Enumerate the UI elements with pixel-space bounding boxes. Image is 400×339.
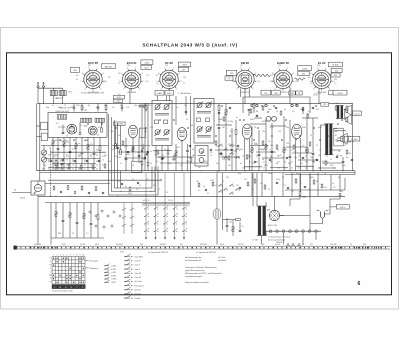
svg-text:47: 47 [158, 189, 160, 191]
wire jog 22 [302, 117, 318, 119]
svg-text:203 1: 203 1 [117, 97, 122, 99]
wire R102d [69, 217, 71, 238]
svg-text:30 49: 30 49 [220, 244, 224, 246]
svg-text:100: 100 [270, 145, 273, 147]
capacitor C52 [271, 151, 274, 152]
tube V2 ECH 81 socket symbol [119, 61, 144, 94]
wire C105u [90, 203, 92, 223]
svg-text:50: 50 [276, 111, 278, 113]
svg-text:10: 10 [319, 150, 321, 152]
wire jog 20 [250, 123, 266, 125]
wire c92 drop [302, 109, 304, 114]
wire ech drop5 [138, 138, 140, 171]
svg-text:7: 7 [73, 255, 74, 257]
capacitor C17 [61, 163, 64, 164]
svg-text:0,5: 0,5 [44, 165, 46, 167]
svg-text:10: 10 [166, 192, 168, 194]
wire left rail stub1 [37, 125, 41, 127]
svg-text:50: 50 [324, 173, 326, 175]
svg-text:302: 302 [60, 160, 63, 162]
svg-text:47: 47 [319, 167, 321, 169]
dial lamp La3 [282, 230, 285, 233]
FM tuner unit box 3043 [48, 113, 107, 138]
svg-text:1,2: 1,2 [258, 81, 260, 83]
wire c61 dn [289, 158, 291, 170]
wire R37d [155, 155, 157, 171]
wire fb drop4 [339, 175, 341, 193]
resistor Rx7 [173, 156, 175, 160]
shield box around EM80 wiring [243, 97, 310, 113]
svg-text:1200: 1200 [302, 197, 306, 199]
svg-text:5k: 5k [254, 127, 256, 129]
svg-text:10n: 10n [240, 149, 243, 151]
svg-text:25: 25 [282, 177, 284, 179]
wire r41 dn [218, 110, 220, 126]
svg-text:100: 100 [262, 131, 265, 133]
wire agc line [117, 123, 119, 188]
svg-text:F:AM: F:AM [157, 92, 162, 95]
svg-text:22k: 22k [66, 142, 69, 144]
coil FM coil L4 [81, 118, 92, 122]
svg-text:6: 6 [123, 88, 124, 90]
wire r72 up [232, 220, 234, 227]
pin voltage annotations around tubes [76, 65, 337, 85]
svg-text:2,2: 2,2 [104, 81, 106, 83]
svg-text:2k: 2k [312, 167, 314, 169]
wire right rail [352, 103, 354, 170]
label box below V6 [329, 91, 340, 95]
svg-text:40: 40 [97, 135, 99, 137]
svg-text:43: 43 [302, 244, 304, 246]
svg-text:220: 220 [108, 161, 111, 163]
choke transformer Tr3 winding bars [336, 106, 344, 119]
resistor R42 [225, 110, 227, 115]
svg-text:4911: 4911 [62, 244, 66, 246]
svg-text:DL 21: DL 21 [355, 113, 360, 115]
resistor R36 [147, 162, 149, 166]
svg-text:215: 215 [240, 65, 243, 67]
capacitor Cx6 [162, 157, 164, 158]
resistor R21 [56, 164, 58, 168]
svg-text:12 14: 12 14 [168, 200, 173, 202]
svg-text:Teilbereich: Teilbereich [89, 267, 98, 270]
svg-text:240: 240 [232, 81, 235, 83]
svg-text:0,05: 0,05 [216, 171, 219, 173]
capacitor Cx35 [275, 107, 277, 108]
IF transformer can Fi2 [194, 99, 214, 144]
oscillator coil box below [132, 161, 142, 172]
tube V6 EL 84 socket symbol [309, 61, 334, 94]
wiring terminal circles cluster [89, 210, 121, 228]
svg-text:205: 205 [165, 65, 168, 67]
resistor R25 [80, 165, 82, 169]
svg-text:T: T [50, 271, 51, 273]
wire R12 up [63, 138, 65, 142]
wire C15 dn [81, 154, 83, 170]
svg-text:0,1: 0,1 [125, 186, 127, 188]
wire V2 drop to bus [129, 88, 131, 103]
junction dots on chassis bus [60, 170, 344, 171]
wire tr2 sec1 [332, 149, 340, 151]
svg-text:300: 300 [168, 163, 171, 165]
capacitor C39 [185, 111, 187, 112]
svg-text:0,1: 0,1 [207, 193, 209, 195]
wire gang link [43, 155, 45, 157]
capacitor Cx12 [220, 153, 222, 154]
svg-text:204: 204 [116, 100, 119, 102]
svg-text:220: 220 [312, 162, 315, 164]
svg-text:491: 491 [310, 244, 313, 246]
svg-text:L: L [50, 268, 51, 270]
svg-text:SCHALTPLAN 2043 W/3 D (Ausf. I: SCHALTPLAN 2043 W/3 D (Ausf. IV) [142, 43, 237, 48]
lower vertical drops right section [252, 173, 318, 197]
wire r61 dn [283, 152, 285, 170]
capacitor C13 [69, 151, 72, 152]
resistor Rx3 [142, 145, 144, 149]
svg-text:Meßwerte gelten mit 220 V~ und: Meßwerte gelten mit 220 V~ und Röhrenvol… [185, 272, 223, 275]
callout label Taste gedrueckt [85, 260, 99, 263]
wire c71 dn [226, 227, 228, 232]
svg-text:9: 9 [278, 67, 279, 69]
svg-text:3021: 3021 [330, 165, 334, 167]
wire V4 drop to bus [244, 88, 246, 103]
svg-text:b 4912: b 4912 [111, 269, 116, 271]
svg-text:4013: 4013 [167, 93, 171, 95]
resistor Rx11 [215, 141, 217, 145]
svg-text:5k: 5k [234, 145, 236, 147]
svg-text:im Betrieb: im Betrieb [218, 259, 226, 262]
wire R16 up [87, 138, 89, 145]
svg-text:UKW-Teil 3043: UKW-Teil 3043 [56, 111, 70, 113]
svg-text:47: 47 [66, 155, 68, 157]
svg-text:8µ: 8µ [352, 141, 354, 143]
capacitor C92 [302, 107, 304, 108]
label box right top [333, 90, 347, 95]
capacitor C35 [88, 192, 90, 193]
wire ech drop4 [132, 138, 134, 171]
wire R12 dn [63, 146, 65, 170]
wire R10 up [52, 138, 54, 141]
resistor R21 [115, 144, 117, 149]
svg-text:500k: 500k [250, 119, 254, 121]
svg-text:2k: 2k [102, 160, 104, 162]
wire r62 up [306, 113, 308, 148]
svg-text:0,1: 0,1 [292, 191, 294, 193]
svg-text:25: 25 [310, 135, 312, 137]
svg-text:Taste gedr.: Taste gedr. [89, 260, 99, 263]
svg-text:47: 47 [72, 233, 74, 235]
capacitor C63 [342, 161, 345, 162]
svg-text:0,9: 0,9 [118, 83, 120, 85]
label box below V5 (a) [289, 91, 295, 95]
capacitor Cx22 [302, 157, 304, 158]
wire bus y196 [38, 195, 345, 197]
pushbutton switch matrix table [52, 257, 85, 285]
capacitor Cx37 [302, 109, 304, 110]
resistor R23 [68, 165, 70, 169]
wire dipole feeder [12, 192, 31, 194]
wire eabc drop2 [249, 139, 251, 171]
svg-text:0,1: 0,1 [333, 167, 335, 169]
svg-text:alle Spannungen bei: alle Spannungen bei [185, 257, 202, 259]
svg-text:10n: 10n [84, 140, 87, 142]
callout label Teilbereich [85, 267, 98, 270]
label box left of V4 (a) [226, 70, 237, 75]
antenna terminal A1 [37, 82, 39, 103]
resistor R57 [247, 182, 249, 186]
svg-text:304: 304 [55, 140, 58, 142]
capacitor C11 in FM box [62, 132, 65, 133]
svg-text:300: 300 [62, 127, 65, 129]
svg-text:0,1: 0,1 [326, 162, 328, 164]
wire c62 dn [312, 155, 314, 170]
wire R14 dn [75, 148, 77, 170]
label box F:AM left [155, 91, 164, 96]
svg-text:1: 1 [325, 67, 326, 69]
svg-text:8µ: 8µ [346, 157, 348, 159]
wire C13 up [69, 138, 71, 151]
svg-text:4 6 8 10: 4 6 8 10 [143, 200, 150, 202]
capacitor C24 [74, 160, 76, 161]
wire R100d [55, 216, 57, 238]
svg-text:282: 282 [84, 110, 87, 112]
dial lamp La4 [289, 230, 292, 233]
capacitor Cx8 [189, 145, 191, 146]
svg-text:100: 100 [340, 191, 343, 193]
wire r31 down [175, 155, 177, 170]
svg-text:4: 4 [329, 88, 330, 90]
wire fb corner up [344, 178, 346, 190]
wire mains wiring2 [325, 207, 337, 214]
svg-text:4912: 4912 [120, 251, 124, 253]
wire r41 up [218, 103, 220, 105]
svg-text:9: 9 [80, 255, 81, 257]
wire c41 dn [218, 129, 220, 170]
capacitor C22 [62, 159, 64, 160]
svg-text:470: 470 [254, 143, 257, 145]
resistor R16 [87, 145, 89, 150]
output transformer Tr2 winding bars [324, 124, 333, 155]
wire r81 dn [299, 196, 301, 199]
svg-text:10: 10 [291, 167, 293, 169]
resistor R23 [132, 147, 134, 152]
svg-text:1: 1 [135, 67, 136, 69]
svg-text:0,1: 0,1 [80, 125, 82, 127]
resistor Rx30 [223, 117, 225, 121]
label box above Tr3 [321, 103, 329, 107]
svg-text:2,2: 2,2 [198, 190, 200, 192]
capacitor Cx31 [229, 107, 231, 108]
tube V3 EF 89 socket symbol [156, 61, 181, 94]
svg-text:8: 8 [158, 73, 159, 75]
wire jog 9 [160, 162, 208, 164]
svg-text:282 283,4: 282 283,4 [126, 91, 137, 94]
capacitor Cx29 [218, 112, 220, 113]
wire r61 up [283, 116, 285, 148]
svg-text:313: 313 [323, 104, 326, 106]
svg-text:25: 25 [64, 105, 66, 107]
wire speaker lead2 [344, 118, 346, 120]
svg-text:220: 220 [224, 115, 227, 117]
svg-text:4916: 4916 [276, 179, 280, 181]
dial lamp La1 [269, 230, 272, 233]
wire el84 drop2 [300, 138, 302, 171]
wire lamp stub b [302, 233, 304, 245]
wire R37u [155, 146, 157, 152]
svg-text:2: 2 [142, 73, 143, 75]
svg-text:220: 220 [137, 152, 140, 154]
resistor R62 [306, 148, 308, 153]
wire r52 dn [265, 149, 267, 170]
svg-text:5: 5 [66, 255, 67, 257]
label box right of V3 (a) [178, 62, 191, 67]
svg-text:30p: 30p [114, 156, 117, 158]
wire jog 10 [215, 149, 232, 151]
resistor R41 [218, 106, 220, 111]
svg-text:gegen Masse gemessen: gegen Masse gemessen [185, 270, 205, 272]
resistor R59 [321, 184, 323, 188]
capacitor C91 [248, 109, 251, 110]
svg-text:30p: 30p [238, 173, 241, 175]
svg-text:220: 220 [298, 156, 301, 158]
svg-text:B 302: B 302 [338, 93, 343, 95]
svg-text:6: 6 [237, 88, 238, 90]
svg-text:0,1: 0,1 [308, 111, 310, 113]
svg-text:5k: 5k [262, 159, 264, 161]
svg-text:5k: 5k [160, 179, 162, 181]
svg-text:4 4 44: 4 4 44 [275, 244, 280, 246]
IF transformer can Fi1 [152, 96, 172, 146]
tube V5a EABC80 envelope [242, 124, 252, 140]
FM dipole input box [31, 181, 45, 195]
svg-text:1: 1 [287, 67, 288, 69]
wire R102u [69, 203, 71, 213]
svg-text:0,1: 0,1 [305, 167, 307, 169]
svg-text:6: 6 [161, 88, 162, 90]
svg-text:30: 30 [268, 189, 270, 191]
capacitor C54 [205, 189, 207, 190]
capacitor C71 [226, 225, 229, 226]
wire C103u [76, 203, 78, 222]
label box right of V5 (a) [298, 66, 312, 71]
wire r42 dn [225, 114, 227, 170]
svg-text:225: 225 [270, 75, 273, 77]
tuning capacitor gang C-var [41, 150, 46, 162]
coil antenna coil L2 [59, 90, 66, 95]
wire r81 wire [290, 199, 300, 206]
resistor R30 [53, 186, 55, 190]
svg-text:0,1: 0,1 [112, 107, 114, 109]
wire c72 up [239, 222, 241, 230]
wire lower left drop [50, 203, 52, 245]
wire tone link [223, 219, 236, 221]
svg-text:230: 230 [274, 93, 277, 95]
wire jog 18 [322, 162, 342, 164]
svg-text:8µ: 8µ [284, 109, 286, 111]
wire fb join [330, 196, 340, 207]
resistor R31 [175, 151, 177, 156]
svg-text:8: 8 [76, 255, 77, 257]
svg-text:0,3: 0,3 [270, 81, 272, 83]
svg-text:4: 4 [176, 88, 177, 90]
label box MB above V1 [102, 64, 116, 69]
capacitor Cx33 [256, 115, 258, 116]
capacitor C58 [287, 187, 289, 188]
wire jog 5 [118, 151, 148, 153]
svg-text:±0,5 Volt: ±0,5 Volt [218, 256, 225, 259]
svg-text:470: 470 [324, 187, 327, 189]
svg-text:2: 2 [57, 255, 58, 257]
svg-text:5k: 5k [112, 149, 114, 151]
resistor R85 [313, 180, 315, 184]
resistor Rx38 [307, 114, 309, 118]
svg-text:c 4913: c 4913 [111, 272, 116, 274]
wire C13 dn [69, 153, 71, 170]
svg-text:220: 220 [226, 177, 229, 179]
capacitor Cx4 [146, 153, 148, 154]
ratio detector can Fi3 [195, 146, 208, 167]
svg-text:4052: 4052 [70, 107, 74, 109]
svg-text:1n: 1n [52, 105, 54, 107]
svg-text:47: 47 [132, 179, 134, 181]
svg-text:M: M [59, 287, 61, 289]
svg-text:229: 229 [264, 93, 267, 95]
svg-text:0,05: 0,05 [270, 127, 273, 129]
capacitor C31 [186, 150, 189, 151]
svg-text:25: 25 [132, 165, 134, 167]
svg-text:3021: 3021 [336, 141, 340, 143]
wire c52 dn [271, 153, 273, 170]
svg-text:500k: 500k [126, 154, 130, 156]
svg-text:5k: 5k [330, 159, 332, 161]
svg-text:100: 100 [196, 181, 199, 183]
svg-text:250: 250 [334, 79, 337, 81]
svg-text:8: 8 [82, 73, 83, 75]
label box right of V3 (b) [178, 67, 188, 71]
wire c51 up [258, 130, 260, 154]
svg-text:2k: 2k [277, 150, 279, 152]
resistor R51 [251, 148, 253, 153]
tube V6a EL84 envelope [292, 124, 302, 140]
svg-text:5n: 5n [305, 150, 307, 152]
svg-text:500k: 500k [58, 107, 62, 109]
resistor R83 [264, 185, 266, 189]
mains plug symbol [317, 210, 329, 221]
wire R14 up [75, 138, 77, 144]
AM-FM switch contacts [219, 144, 241, 195]
svg-text:30p: 30p [230, 121, 233, 123]
wire c63 up [342, 157, 344, 161]
wire pre-canA vert 0 [141, 103, 143, 170]
svg-text:2,2: 2,2 [118, 181, 120, 183]
wire lamp stub a [283, 233, 285, 245]
wire fb horizontal y190 [285, 189, 345, 191]
wire lamp row drop [265, 231, 267, 235]
svg-text:220: 220 [66, 165, 69, 167]
wire ls3 lead2 [337, 140, 341, 142]
resistor R71 heater squiggle between V5 and V6 [295, 78, 306, 80]
svg-text:470: 470 [244, 179, 247, 181]
dense annotation rows under FM box [42, 150, 343, 171]
svg-text:3021: 3021 [268, 109, 272, 111]
wire rect right lead [280, 215, 284, 217]
svg-text:5k: 5k [252, 189, 254, 191]
dial scale tick marks [14, 246, 386, 250]
wire speaker bus v [344, 110, 346, 120]
resistor Rx32 [250, 109, 252, 113]
svg-text:47: 47 [102, 165, 104, 167]
svg-text:93: 93 [118, 73, 120, 75]
